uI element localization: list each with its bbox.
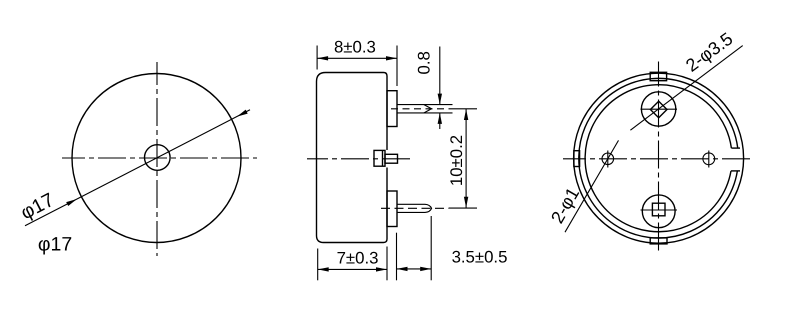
svg-text:7±0.3: 7±0.3	[337, 248, 379, 267]
arrowhead lower-left on circle	[66, 199, 77, 206]
label phi17 rotated	[17, 189, 58, 224]
front view center hole	[145, 145, 171, 171]
lead exit notch left	[574, 151, 580, 167]
label phi17 horizontal	[38, 234, 72, 256]
diameter dimension line phi17	[25, 110, 250, 226]
lower pin centerline	[381, 207, 449, 209]
dim 7±0.3 line	[318, 268, 387, 270]
small hole left	[602, 151, 614, 168]
dim 10±0.2 line	[465, 109, 467, 208]
label 7±0.3	[337, 248, 379, 267]
side terminal tab	[374, 150, 398, 166]
dim 8±0.3 extension lines	[317, 46, 397, 87]
dim 3.5±0.5 extension lines	[397, 216, 432, 280]
rim gap caps right	[731, 148, 740, 171]
lower terminal horizontal tick	[641, 209, 678, 211]
back view horizontal centerline	[563, 158, 754, 160]
lower pin seat	[387, 191, 397, 227]
dim 7 arrows	[318, 267, 387, 271]
front view outer circle	[72, 74, 241, 243]
dim 3.5 arrows	[397, 267, 432, 271]
dim 10±0.2 extension lines	[449, 109, 477, 208]
dim 7±0.3 extension lines	[318, 247, 387, 281]
upper pin seat	[387, 91, 397, 127]
label 3.5±0.5	[452, 248, 508, 267]
front view vertical centerline	[156, 62, 158, 256]
svg-text:8±0.3: 8±0.3	[334, 38, 376, 57]
label 0.8	[414, 51, 433, 74]
side view body outline	[317, 73, 388, 243]
label 2-phi1 rotated	[547, 184, 583, 227]
dim 10 arrows	[464, 109, 468, 208]
small hole right	[703, 151, 715, 168]
side view mid centerline	[307, 158, 414, 160]
dim 3.5±0.5 line	[397, 268, 432, 270]
svg-text:0.8: 0.8	[414, 51, 433, 74]
lower pin lead	[397, 204, 432, 212]
svg-text:10±0.2: 10±0.2	[447, 135, 466, 186]
dim 8 right arrow	[386, 56, 397, 60]
upper pin lead	[397, 105, 453, 113]
svg-text:φ17: φ17	[38, 234, 72, 256]
dim 8 left arrow	[317, 56, 328, 60]
back view outer circle	[574, 73, 744, 243]
top mounting tab	[650, 72, 666, 80]
back view middle rim circle (gap at right)	[579, 78, 738, 238]
upper pin centerline	[391, 108, 449, 110]
dim 0.8 lines	[439, 47, 441, 130]
back view inner rim circle (gap at right)	[585, 85, 731, 232]
dim 8±0.3 line	[317, 57, 397, 59]
label 2-phi3.5 rotated	[682, 29, 736, 76]
upper terminal circle	[641, 92, 675, 126]
label 10±0.2	[447, 135, 466, 186]
dim 0.8 arrows	[438, 94, 442, 124]
upper terminal square (rotated)	[650, 101, 667, 118]
back view vertical centerline	[658, 62, 660, 255]
upper terminal horizontal tick	[641, 108, 678, 110]
lower terminal square	[652, 203, 665, 216]
front view horizontal centerline	[62, 157, 257, 159]
bottom mounting tab	[650, 238, 667, 244]
lower terminal circle	[642, 195, 675, 228]
label 8±0.3	[334, 38, 376, 57]
leader 2-phi3.5	[630, 46, 742, 131]
svg-text:3.5±0.5: 3.5±0.5	[452, 248, 508, 267]
leader 2-phi1	[565, 140, 619, 232]
arrowhead upper-right on circle	[237, 110, 248, 117]
